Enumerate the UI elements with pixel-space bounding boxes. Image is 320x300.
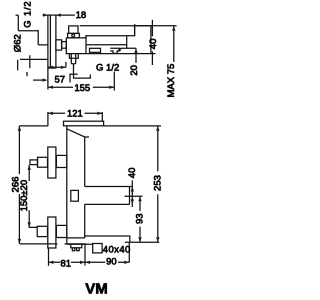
connector nut top view xyxy=(56,40,62,50)
wall break staircase upper xyxy=(16,15,48,45)
svg-text:VM: VM xyxy=(85,281,108,298)
svg-text:93: 93 xyxy=(135,213,146,224)
top cap xyxy=(64,121,104,126)
svg-text:MAX 75: MAX 75 xyxy=(166,64,177,98)
wall break staircase lower xyxy=(18,55,48,76)
svg-text:121: 121 xyxy=(67,109,83,120)
extension cap to 253 xyxy=(104,125,161,127)
svg-text:20: 20 xyxy=(129,65,140,76)
dim 155 xyxy=(48,86,114,88)
upper union xyxy=(48,147,56,178)
svg-text:40: 40 xyxy=(148,39,159,50)
dim MAX 75 xyxy=(173,26,175,62)
body inner lines xyxy=(86,36,127,48)
svg-text:40x40: 40x40 xyxy=(103,245,131,256)
dim 40 front xyxy=(131,180,133,207)
button xyxy=(71,190,79,201)
svg-text:G 1/2: G 1/2 xyxy=(23,0,34,27)
body column xyxy=(66,126,68,244)
spout taper under cap xyxy=(67,129,89,137)
svg-text:155: 155 xyxy=(74,83,90,94)
extension lines xyxy=(47,68,49,90)
svg-text:90: 90 xyxy=(106,257,117,268)
bottom port stub xyxy=(69,54,78,58)
svg-text:18: 18 xyxy=(76,10,87,21)
svg-text:253: 253 xyxy=(152,175,163,191)
bottom line left xyxy=(20,243,86,245)
dim 253 xyxy=(157,126,159,242)
svg-text:40: 40 xyxy=(127,168,138,179)
dim 90 ext xyxy=(85,242,129,265)
dim 40 top view xyxy=(151,20,153,65)
dim 18 xyxy=(43,14,75,16)
stray arrow segment xyxy=(33,79,44,81)
dim 57 xyxy=(48,66,66,68)
break at bottom port xyxy=(70,74,78,83)
dim 121 xyxy=(48,112,102,126)
mid stub xyxy=(125,195,143,197)
lower union xyxy=(48,217,56,248)
dim 93 xyxy=(139,196,141,242)
svg-text:81: 81 xyxy=(61,258,72,269)
40x40 square glyph xyxy=(93,244,102,253)
svg-text:Ø62: Ø62 xyxy=(12,34,23,52)
aerator xyxy=(71,244,82,248)
dim 81 xyxy=(49,261,86,263)
svg-text:57: 57 xyxy=(55,75,66,86)
svg-text:150±20: 150±20 xyxy=(19,180,30,212)
dim 150±20 xyxy=(29,165,37,228)
spout bottom right xyxy=(85,236,130,242)
escutcheon side xyxy=(48,15,56,68)
body outline xyxy=(66,26,155,54)
dim 90 xyxy=(85,261,129,263)
svg-text:G 1/2: G 1/2 xyxy=(96,62,119,73)
dim 81 ext xyxy=(48,248,50,266)
top knob xyxy=(69,26,78,34)
leader G 1/2 bottom xyxy=(74,64,91,78)
nozzle xyxy=(85,187,133,205)
dim 266 xyxy=(19,125,48,127)
dim 20 xyxy=(135,48,137,63)
